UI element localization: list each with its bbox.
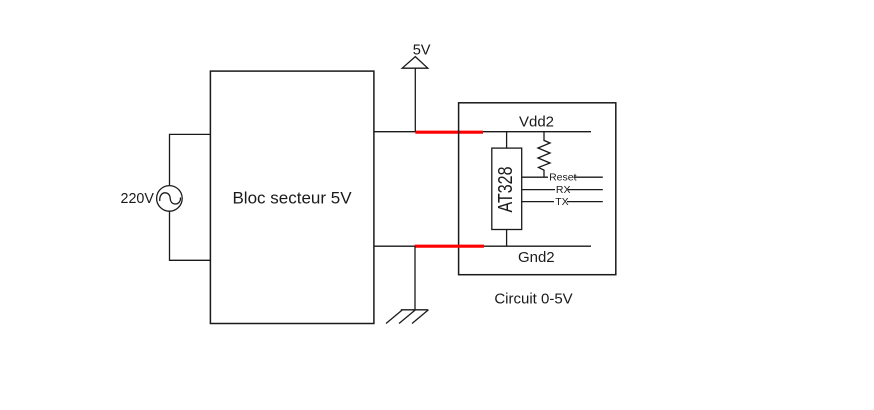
power symbol 5V triangle [402,57,428,69]
wire Reset left segment [522,176,548,178]
svg-text:Gnd2: Gnd2 [518,249,555,266]
block: Bloc secteur 5V [210,71,374,323]
svg-text:TX: TX [555,196,568,208]
ground symbol [386,310,429,324]
wire U1 top pin [506,132,508,148]
resistor R1 [538,132,550,178]
IC U1 AT328 body [492,148,522,229]
red highlight top wire [415,131,483,134]
svg-text:220V: 220V [121,191,155,207]
svg-text:5V: 5V [413,43,431,59]
svg-text:Circuit 0-5V: Circuit 0-5V [494,291,572,308]
source V1 220V AC [157,186,183,212]
wire RX left segment [522,189,555,191]
svg-text:Bloc secteur 5V: Bloc secteur 5V [232,189,352,208]
wire TX right segment [567,201,603,203]
wire Reset right segment [574,176,603,178]
circuit box 0-5V [459,103,616,275]
wire TX left segment [522,201,554,203]
red highlight bottom wire [415,245,484,248]
wire bottom-left loop [170,211,211,260]
wire top-left loop [170,134,211,185]
wire Vdd (top output) [374,131,591,133]
svg-text:Reset: Reset [549,172,577,184]
wire RX right segment [568,189,603,191]
svg-text:AT328: AT328 [495,167,517,213]
wire ground stem [414,246,416,310]
wire Gnd (bottom output) [374,245,591,247]
svg-text:Vdd2: Vdd2 [519,114,554,131]
wire 5V stem [414,68,416,132]
wire U1 bottom pin [506,230,508,247]
